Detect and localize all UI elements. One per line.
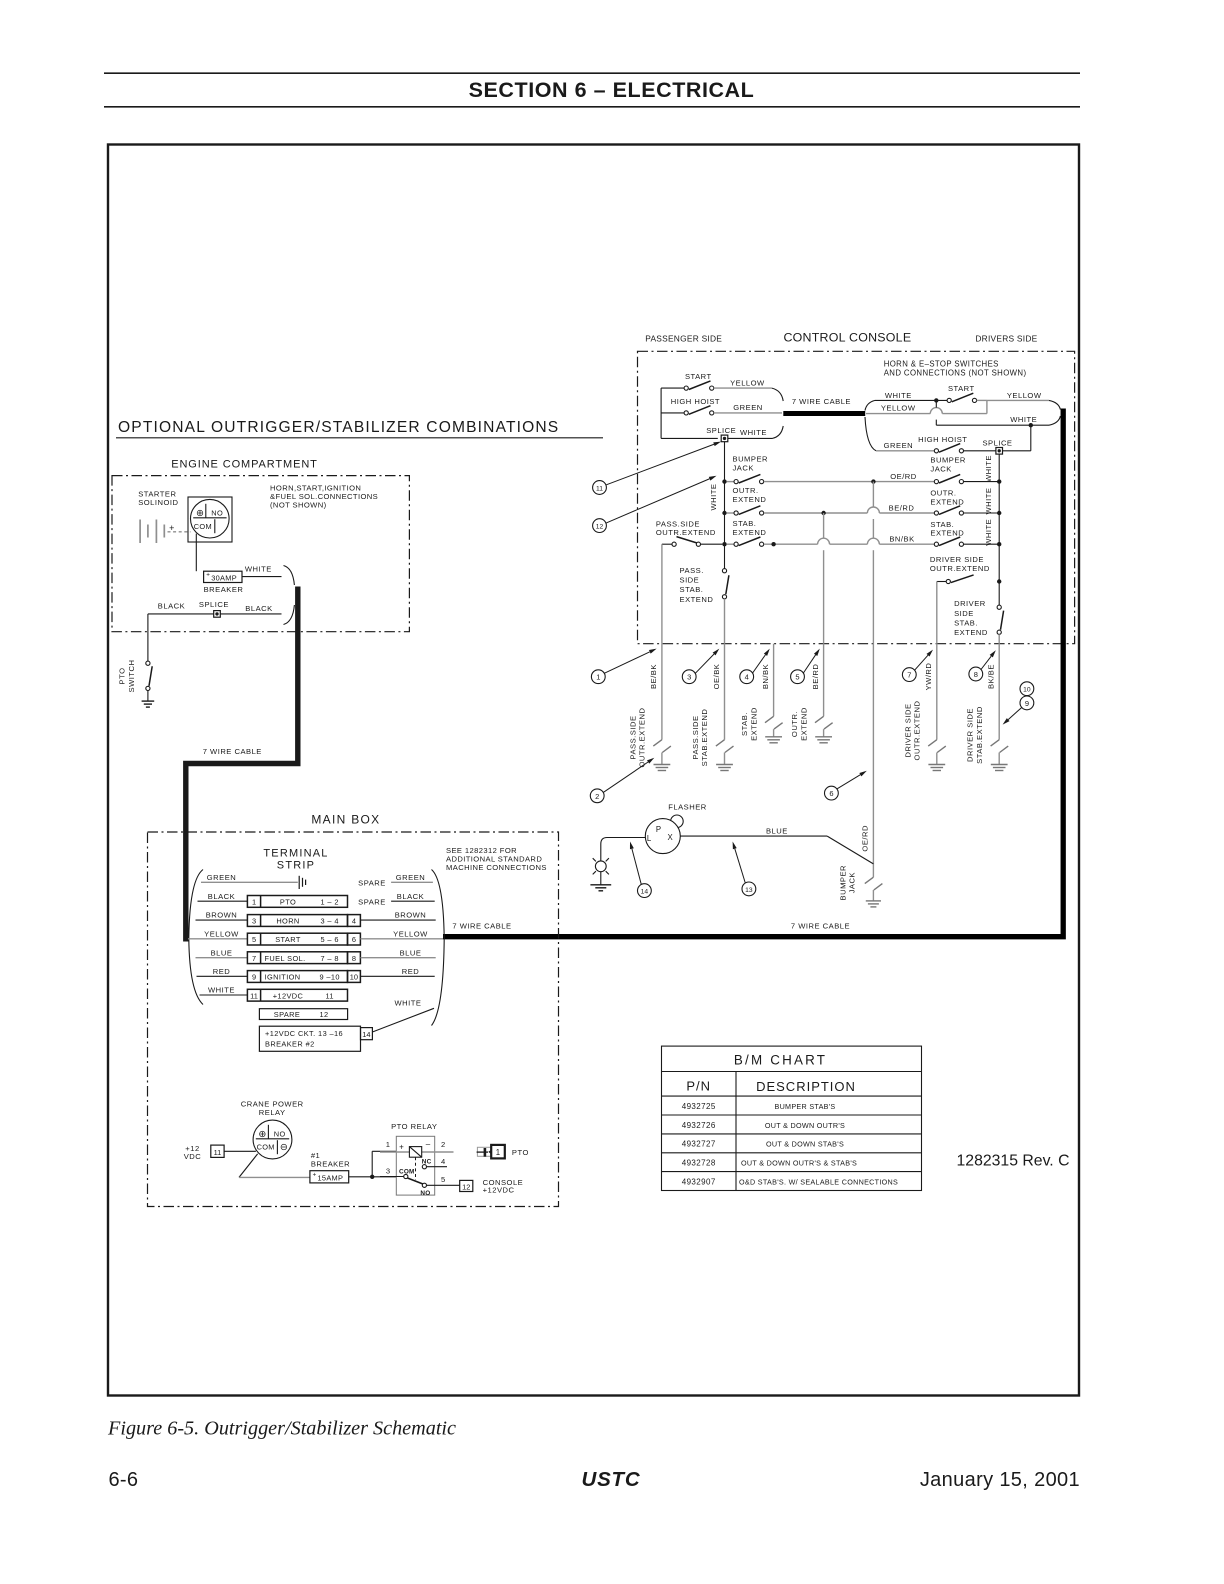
callout circle 12 (593, 519, 607, 533)
chassis symbol (green wire) (298, 876, 300, 889)
leader 1 (605, 652, 650, 673)
callout circle 5 (791, 670, 805, 684)
svg-text:OUTR.: OUTR. (930, 489, 956, 498)
svg-text:4932726: 4932726 (682, 1121, 716, 1130)
svg-text:GREEN: GREEN (396, 873, 426, 882)
svg-text:DRIVER SIDE: DRIVER SIDE (966, 708, 975, 762)
terminal block +12VDC (247, 989, 347, 1001)
wire solenoid to breaker (195, 534, 197, 572)
wire driver outr extend down (936, 582, 938, 644)
svg-text:11: 11 (325, 991, 333, 1000)
svg-text:STAB.EXTEND: STAB.EXTEND (700, 709, 709, 767)
svg-text:9: 9 (1025, 699, 1029, 708)
callout circle 11 (593, 481, 607, 495)
svg-text:+: + (313, 1171, 317, 1178)
svg-text:4: 4 (745, 673, 749, 682)
svg-text:12: 12 (319, 1010, 328, 1019)
svg-text:DRIVERS SIDE: DRIVERS SIDE (975, 334, 1037, 344)
7 wire cable (console bundle) (783, 411, 865, 416)
svg-text:10: 10 (350, 973, 358, 982)
svg-text:GREEN: GREEN (207, 873, 237, 882)
svg-text:P/N: P/N (686, 1079, 711, 1094)
wire BK/BE drop to ground (998, 644, 1000, 740)
crane power relay K2 (253, 1120, 292, 1159)
PTO connector symbol (477, 1147, 492, 1156)
svg-text:START: START (275, 935, 301, 944)
svg-text:STAB.: STAB. (733, 519, 757, 528)
svg-text:BREAKER #2: BREAKER #2 (265, 1040, 315, 1049)
svg-text:EXTEND: EXTEND (930, 497, 964, 506)
svg-text:PTO RELAY: PTO RELAY (391, 1122, 437, 1131)
svg-text:NO: NO (211, 509, 223, 518)
svg-text:JACK: JACK (733, 463, 754, 472)
svg-text:O&D STAB'S. W/ SEALABLE CO: O&D STAB'S. W/ SEALABLE CONNECTIONS (739, 1178, 898, 1187)
leader 7 (915, 655, 928, 670)
ground (bumper jack) (866, 900, 881, 902)
leader 14 (632, 849, 641, 885)
callout circle 3 (682, 670, 696, 684)
svg-text:1: 1 (496, 1148, 500, 1157)
svg-text:WHITE: WHITE (885, 391, 912, 400)
svg-text:2: 2 (441, 1140, 446, 1149)
svg-text:SPLICE: SPLICE (706, 426, 736, 435)
wire WHITE (driver lower) (935, 400, 937, 407)
wire 11 to relay (224, 1150, 256, 1152)
svg-text:BLACK: BLACK (245, 604, 272, 613)
svg-text:AND CONNECTIONS (NOT SHOWN): AND CONNECTIONS (NOT SHOWN) (884, 368, 1027, 377)
header rule top (104, 72, 1080, 74)
svg-text:STAB.: STAB. (740, 712, 749, 736)
svg-text:CONTROL CONSOLE: CONTROL CONSOLE (783, 331, 911, 345)
callout circle 4 (740, 670, 754, 684)
terminal block FUEL SOL. (247, 952, 347, 964)
callout circle 1 (591, 670, 605, 684)
leader line 12 to white bus (606, 479, 709, 523)
circuit breaker CB2 15AMP (310, 1171, 349, 1183)
wire OE/BK drop to ground (724, 644, 726, 740)
svg-text:COM: COM (194, 522, 212, 531)
svg-text:USTC: USTC (581, 1468, 640, 1491)
svg-text:RED: RED (402, 967, 420, 976)
svg-text:+12VDC: +12VDC (273, 991, 304, 1000)
svg-text:12: 12 (596, 524, 604, 531)
svg-text:GREEN: GREEN (884, 441, 914, 450)
flasher unit (671, 815, 684, 828)
leader 3 (695, 654, 714, 673)
wire BN/BK drop to ground (773, 644, 775, 717)
svg-text:BREAKER: BREAKER (311, 1159, 350, 1168)
header rule bottom (104, 106, 1080, 108)
wire black down to PTO switch (147, 614, 149, 661)
svg-text:4932907: 4932907 (682, 1178, 716, 1187)
svg-text:BE/RD: BE/RD (811, 664, 820, 690)
svg-text:PTO: PTO (280, 898, 296, 907)
svg-text:IGNITION: IGNITION (265, 973, 301, 982)
svg-text:13: 13 (745, 887, 753, 894)
svg-text:GREEN: GREEN (733, 403, 763, 412)
ground (BN/BK) (765, 736, 782, 738)
svg-text:3: 3 (386, 1166, 391, 1175)
svg-text:7: 7 (252, 954, 256, 963)
splice (engine black wire) (214, 611, 221, 618)
main box outline (148, 832, 559, 1207)
svg-text:+12VDC CKT. 13 –16: +12VDC CKT. 13 –16 (265, 1029, 343, 1038)
starter solenoid relay K1 (188, 497, 232, 542)
svg-text:L: L (647, 834, 652, 843)
wire driver stab extend down (998, 634, 1000, 643)
svg-text:SPARE: SPARE (358, 879, 386, 888)
svg-text:DESCRIPTION: DESCRIPTION (756, 1079, 856, 1094)
svg-text:⊕: ⊕ (196, 508, 204, 519)
svg-text:+: + (206, 572, 210, 579)
svg-text:14: 14 (362, 1030, 370, 1039)
svg-text:BLACK: BLACK (158, 602, 185, 611)
wire battery to solenoid (dashed) (168, 531, 191, 533)
svg-text:X: X (667, 833, 673, 842)
wire BE/RD drop (823, 513, 825, 538)
svg-text:3 – 4: 3 – 4 (320, 917, 338, 926)
wire BE/BK drop to ground (661, 644, 663, 740)
svg-text:7 WIRE CABLE: 7 WIRE CABLE (791, 921, 850, 930)
cable gather curves (engine) (284, 566, 295, 586)
ground (PTO switch) (147, 691, 149, 702)
svg-text:January 15, 2001: January 15, 2001 (920, 1469, 1080, 1491)
7 wire cable (main run) (443, 409, 1063, 937)
svg-text:PASS.SIDE: PASS.SIDE (656, 519, 700, 528)
svg-text:2: 2 (595, 792, 599, 801)
svg-text:7 – 8: 7 – 8 (320, 954, 338, 963)
svg-text:SPARE: SPARE (274, 1010, 301, 1019)
svg-text:HORN: HORN (276, 917, 299, 926)
svg-text:STAB.: STAB. (930, 520, 954, 529)
svg-text:4: 4 (352, 917, 356, 926)
svg-text:YELLOW: YELLOW (730, 378, 765, 387)
B/M chart table (662, 1046, 922, 1190)
svg-text:SIDE: SIDE (680, 576, 700, 585)
wire white to splice (driver) (1030, 425, 1032, 451)
svg-text:VDC: VDC (184, 1152, 202, 1161)
break (OE/RD) (865, 877, 874, 883)
ground (marker lamp) (600, 872, 602, 885)
svg-text:NO: NO (274, 1130, 286, 1139)
terminal block PTO (247, 896, 347, 908)
wire OE/RD long drop (872, 644, 874, 864)
svg-text:START: START (685, 372, 712, 381)
svg-text:WHITE: WHITE (709, 484, 718, 511)
svg-text:EXTEND: EXTEND (733, 528, 767, 537)
callout circle 8 (969, 667, 983, 681)
svg-text:11: 11 (596, 486, 603, 493)
wire pass stab extend down (724, 599, 726, 644)
engine compartment box (112, 476, 409, 632)
svg-text:SPLICE: SPLICE (199, 600, 229, 609)
svg-text:COM: COM (257, 1143, 275, 1152)
svg-text:DRIVER: DRIVER (954, 599, 986, 608)
leader 6 (837, 775, 860, 789)
svg-text:HIGH HOIST: HIGH HOIST (671, 397, 720, 406)
wire white bus (driver splice down) (998, 454, 1000, 605)
svg-text:B/M CHART: B/M CHART (734, 1052, 827, 1067)
svg-text:⊕: ⊕ (258, 1129, 266, 1140)
svg-text:BK/BE: BK/BE (987, 664, 996, 689)
ground (BE/BK) (654, 764, 671, 766)
terminal block HORN (247, 915, 347, 927)
svg-text:9: 9 (252, 973, 256, 982)
terminal box 11 (211, 1145, 224, 1157)
svg-text:FUEL SOL.: FUEL SOL. (265, 954, 306, 963)
svg-text:6: 6 (352, 935, 356, 944)
svg-text:BLUE: BLUE (211, 948, 233, 957)
svg-text:YELLOW: YELLOW (1007, 391, 1042, 400)
svg-text:EXTEND: EXTEND (749, 707, 758, 741)
svg-text:DRIVER SIDE: DRIVER SIDE (930, 555, 984, 564)
outer frame (108, 145, 1079, 1396)
svg-text:4932727: 4932727 (682, 1140, 716, 1149)
svg-text:8: 8 (974, 670, 978, 679)
svg-text:EXTEND: EXTEND (733, 495, 767, 504)
svg-text:WHITE: WHITE (208, 986, 235, 995)
svg-text:BN/BK: BN/BK (889, 535, 914, 544)
svg-text:NO: NO (420, 1190, 430, 1197)
leader 13 (735, 849, 746, 883)
terminal block IGNITION (247, 971, 347, 983)
svg-text:OUTR.EXTEND: OUTR.EXTEND (638, 708, 647, 768)
svg-text:9 –10: 9 –10 (319, 973, 340, 982)
svg-text:8: 8 (352, 954, 356, 963)
callout circle 6 (825, 786, 839, 800)
svg-text:JACK: JACK (848, 872, 857, 893)
callout circle 14 (638, 884, 652, 898)
svg-text:WHITE: WHITE (1010, 415, 1037, 424)
svg-text:TERMINAL: TERMINAL (263, 848, 328, 860)
svg-text:OE/RD: OE/RD (861, 825, 870, 852)
coil dashed link (415, 1157, 417, 1180)
svg-text:OUTR.EXTEND: OUTR.EXTEND (930, 564, 990, 573)
svg-text:BREAKER: BREAKER (204, 585, 244, 594)
svg-text:WHITE: WHITE (984, 519, 993, 546)
svg-text:YELLOW: YELLOW (393, 929, 428, 938)
svg-text:SWITCH: SWITCH (127, 660, 136, 693)
svg-text:EXTEND: EXTEND (680, 595, 714, 604)
battery B1 (139, 520, 141, 544)
wire BN/BK row (764, 543, 818, 545)
control console box (638, 351, 1075, 643)
PTO switch S1 (146, 661, 150, 665)
svg-text:6: 6 (829, 789, 833, 798)
svg-text:OUT & DOWN OUTR'S & STAB': OUT & DOWN OUTR'S & STAB'S (741, 1159, 857, 1168)
svg-text:MAIN BOX: MAIN BOX (311, 812, 380, 826)
svg-text:BUMPER STAB'S: BUMPER STAB'S (774, 1102, 835, 1111)
svg-text:30AMP: 30AMP (211, 573, 237, 582)
svg-text:4932728: 4932728 (682, 1159, 716, 1168)
svg-text:14: 14 (641, 889, 649, 896)
svg-text:DRIVER SIDE: DRIVER SIDE (903, 703, 912, 757)
wire OE/RD drop (872, 482, 874, 507)
svg-text:STRIP: STRIP (277, 860, 315, 872)
svg-text:OUT & DOWN STAB'S: OUT & DOWN STAB'S (766, 1140, 844, 1149)
svg-text:7 WIRE CABLE: 7 WIRE CABLE (792, 397, 851, 406)
svg-text:1: 1 (252, 898, 256, 907)
svg-text:BLUE: BLUE (400, 948, 422, 957)
svg-text:SIDE: SIDE (954, 609, 974, 618)
svg-text:STAB.: STAB. (680, 585, 704, 594)
callout circle 2 (590, 789, 604, 803)
svg-text:7 WIRE CABLE: 7 WIRE CABLE (452, 921, 511, 930)
svg-text:WHITE: WHITE (740, 428, 767, 437)
svg-text:3: 3 (687, 673, 691, 682)
cable gather bracket (terminal left) (189, 870, 203, 939)
svg-text:BN/BK: BN/BK (761, 664, 770, 689)
svg-text:+12VDC: +12VDC (483, 1185, 515, 1194)
leader 2 (603, 762, 648, 792)
ground (OE/BK) (716, 764, 733, 766)
svg-text:SOLINOID: SOLINOID (138, 498, 178, 507)
svg-text:OUT & DOWN OUTR'S: OUT & DOWN OUTR'S (765, 1121, 845, 1130)
leader 9 (1008, 708, 1022, 720)
svg-text:BLACK: BLACK (208, 892, 235, 901)
svg-text:(NOT SHOWN): (NOT SHOWN) (270, 501, 327, 510)
svg-text:5 – 6: 5 – 6 (320, 935, 338, 944)
svg-text:15AMP: 15AMP (318, 1173, 344, 1182)
svg-text:EXTEND: EXTEND (954, 628, 988, 637)
svg-text:YELLOW: YELLOW (204, 929, 239, 938)
svg-text:OUTR.EXTEND: OUTR.EXTEND (656, 528, 716, 537)
svg-text:PASSENGER SIDE: PASSENGER SIDE (645, 334, 722, 344)
svg-text:12: 12 (462, 1182, 470, 1191)
ground (BK/BE) (991, 764, 1008, 766)
callout circle 9 (1020, 696, 1034, 710)
svg-text:WHITE: WHITE (984, 455, 993, 482)
leader 5 (803, 655, 815, 673)
terminal block +12VDC CKT breaker #2 (259, 1026, 360, 1051)
svg-text:EXTEND: EXTEND (930, 529, 964, 538)
terminal block SPARE 12 (259, 1009, 347, 1020)
wire white to box 14 (372, 1008, 434, 1032)
wire junction up to pin 1 (371, 1151, 373, 1177)
svg-text:OUTR.EXTEND: OUTR.EXTEND (913, 701, 922, 761)
wire flasher to lamp (601, 838, 646, 861)
svg-text:JACK: JACK (930, 464, 951, 473)
svg-text:⊖: ⊖ (280, 1142, 288, 1153)
svg-text:Figure 6-5. Outrigger/Stabiliz: Figure 6-5. Outrigger/Stabilizer Schemat… (107, 1418, 456, 1440)
leader 4 (753, 655, 766, 673)
svg-text:STAB.EXTEND: STAB.EXTEND (975, 706, 984, 764)
svg-text:OE/RD: OE/RD (890, 472, 917, 481)
svg-text:OE/BK: OE/BK (712, 664, 721, 690)
svg-text:EXTEND: EXTEND (799, 707, 808, 741)
callout circle 13 (742, 882, 756, 896)
svg-text:FLASHER: FLASHER (668, 802, 707, 811)
svg-text:1: 1 (386, 1140, 391, 1149)
7 wire cable (engine to main box) (186, 587, 298, 942)
wire BE/RD drop to ground (823, 644, 825, 717)
callout circle 10 (1020, 682, 1034, 696)
svg-text:YELLOW: YELLOW (881, 404, 916, 413)
wire BE/RD row (764, 512, 868, 514)
svg-text:SECTION 6 – ELECTRICAL: SECTION 6 – ELECTRICAL (469, 78, 755, 102)
cable fan curves (console right) (865, 400, 875, 410)
wire white bus (passenger splice down) (724, 442, 726, 569)
svg-text:WHITE: WHITE (245, 564, 272, 573)
svg-text:7: 7 (907, 671, 911, 680)
svg-text:11: 11 (214, 1148, 222, 1157)
terminal block START (247, 933, 347, 945)
marker lamp (595, 861, 606, 872)
ground (BE/RD) (815, 736, 832, 738)
svg-text:5: 5 (795, 673, 799, 682)
svg-text:MACHINE CONNECTIONS: MACHINE CONNECTIONS (446, 863, 547, 872)
svg-text:WHITE: WHITE (984, 488, 993, 515)
svg-text:3: 3 (252, 917, 256, 926)
wire YW/RD drop to ground (936, 644, 938, 740)
svg-text:BLACK: BLACK (397, 892, 424, 901)
svg-text:OPTIONAL OUTRIGGER/STABILIZER: OPTIONAL OUTRIGGER/STABILIZER COMBINATIO… (118, 419, 559, 436)
svg-text:6-6: 6-6 (109, 1469, 139, 1491)
svg-text:RED: RED (213, 967, 231, 976)
svg-text:OUTR.: OUTR. (790, 711, 799, 737)
wire relay to breaker (239, 1154, 258, 1178)
svg-text:BUMPER: BUMPER (839, 865, 848, 901)
svg-text:START: START (948, 384, 975, 393)
relay coil (380, 1151, 454, 1153)
svg-text:RELAY: RELAY (259, 1108, 286, 1117)
svg-text:STAB.: STAB. (954, 618, 978, 627)
svg-text:SPLICE: SPLICE (982, 439, 1012, 448)
callout circle 7 (902, 668, 916, 682)
svg-text:5: 5 (441, 1175, 446, 1184)
svg-text:YW/RD: YW/RD (924, 663, 933, 691)
svg-text:ENGINE COMPARTMENT: ENGINE COMPARTMENT (171, 459, 318, 471)
ground (YW/RD) (928, 764, 945, 766)
svg-text:4: 4 (441, 1157, 446, 1166)
wire passenger bus (660, 388, 662, 438)
svg-text:11: 11 (250, 991, 258, 1000)
svg-text:1 – 2: 1 – 2 (320, 898, 338, 907)
terminal box 12 (460, 1180, 473, 1191)
svg-text:PASS.SIDE: PASS.SIDE (628, 715, 637, 759)
leader line 11 to splice (606, 444, 714, 485)
PTO relay K3 (396, 1136, 434, 1195)
svg-text:1282315 Rev. C: 1282315 Rev. C (957, 1152, 1070, 1169)
svg-text:HIGH HOIST: HIGH HOIST (918, 435, 967, 444)
svg-text:BROWN: BROWN (395, 911, 427, 920)
svg-text:P: P (656, 825, 662, 834)
svg-text:+: + (399, 1142, 404, 1151)
leader 8 (981, 656, 991, 669)
circuit breaker CB1 30AMP (204, 571, 242, 582)
svg-text:–: – (426, 1140, 431, 1149)
svg-text:5: 5 (252, 935, 256, 944)
wire OE/RD row (764, 481, 935, 483)
cable gather bracket (terminal right) (432, 870, 445, 939)
svg-text:BLUE: BLUE (766, 826, 788, 835)
svg-text:OUTR.: OUTR. (733, 486, 759, 495)
svg-text:1: 1 (596, 673, 600, 682)
svg-text:10: 10 (1023, 687, 1031, 694)
svg-text:PTO: PTO (118, 668, 127, 685)
wire pass outr extend down (661, 544, 663, 644)
svg-text:BE/RD: BE/RD (889, 503, 915, 512)
svg-text:BROWN: BROWN (206, 911, 238, 920)
svg-text:SPARE: SPARE (358, 897, 386, 906)
svg-text:7 WIRE CABLE: 7 WIRE CABLE (203, 747, 262, 756)
svg-text:PTO: PTO (512, 1148, 529, 1157)
svg-text:PASS.SIDE: PASS.SIDE (691, 715, 700, 759)
wire breaker to PTO relay (349, 1176, 397, 1178)
svg-text:BE/BK: BE/BK (649, 664, 658, 689)
junction (white/start) (934, 398, 938, 402)
svg-text:4932725: 4932725 (682, 1102, 716, 1111)
